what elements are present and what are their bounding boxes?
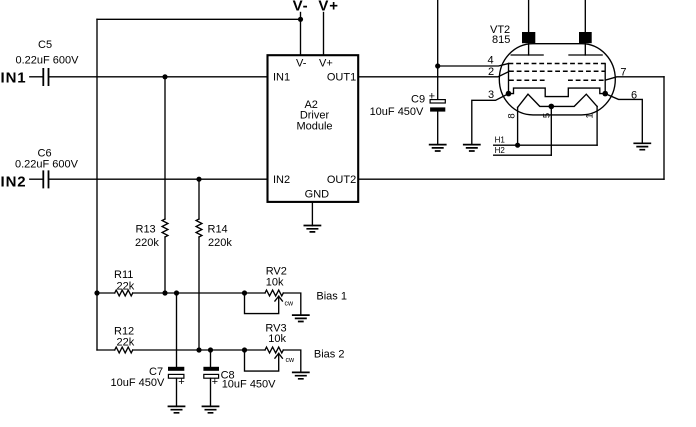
beam plate dashed row 3 right (568, 79, 605, 81)
svg-text:R13: R13 (136, 224, 156, 236)
svg-text:V+: V+ (319, 58, 333, 70)
wire left vertical bus (96, 19, 98, 350)
op-amp module A2 box (268, 55, 359, 202)
ground RV3 (292, 372, 310, 378)
ground C9 (429, 145, 447, 151)
node left bus R11 (94, 290, 99, 295)
wire V- to module (300, 13, 302, 56)
wire R14 upper (198, 179, 200, 219)
wire right vertical bus (663, 77, 665, 179)
node R14 bottom (196, 347, 201, 352)
svg-text:+: + (178, 376, 184, 388)
svg-text:C5: C5 (38, 39, 52, 51)
wire R12 row left (97, 349, 115, 351)
wire V+ to module (323, 13, 325, 56)
svg-text:C7: C7 (149, 366, 163, 378)
wire RV3 right lead (283, 350, 301, 372)
wire screen tie left (508, 64, 510, 94)
svg-text:22k: 22k (117, 280, 135, 292)
svg-text:IN1: IN1 (1, 69, 27, 86)
svg-text:0.22uF 600V: 0.22uF 600V (15, 159, 79, 171)
capacitor C8 (203, 367, 219, 371)
capacitor C5 (43, 68, 48, 86)
wire RV3 wiper loop (245, 350, 279, 371)
potentiometer RV2 (265, 290, 283, 296)
right anode plate (569, 54, 602, 56)
svg-text:H1: H1 (495, 136, 506, 145)
svg-text:220k: 220k (135, 237, 159, 249)
RV2 wiper arrow (275, 296, 283, 301)
wire H1 (494, 144, 597, 146)
node RV2 loop (242, 290, 247, 295)
wire R13 lower (164, 237, 166, 293)
ground pin 3 (463, 145, 481, 151)
capacitor C9 (430, 100, 445, 103)
RV3 wiper arrow (275, 353, 283, 358)
wire R12 row to RV3 (133, 349, 265, 351)
svg-text:10uF 450V: 10uF 450V (111, 377, 165, 389)
beam plate dashed row 3 left (509, 79, 546, 81)
wire C7 lower (176, 378, 178, 406)
wire screen tie right (604, 64, 606, 94)
resistor R12 (115, 347, 133, 353)
node R13 top on IN1 line (162, 74, 167, 79)
filament cathodes (518, 94, 598, 107)
svg-text:10uF 450V: 10uF 450V (222, 379, 276, 391)
capacitor C6 (43, 170, 48, 188)
node RV3 loop (242, 347, 247, 352)
wire R11 row left (97, 292, 115, 294)
tube envelope (499, 44, 615, 115)
svg-text:3: 3 (488, 89, 494, 101)
node C7 top (174, 290, 179, 295)
wire R14 lower (198, 237, 200, 350)
svg-text:Bias 1: Bias 1 (316, 291, 347, 303)
wire right anode cap top (584, 0, 586, 32)
svg-text:V+: V+ (318, 0, 339, 15)
svg-text:220k: 220k (208, 237, 232, 249)
wire C8 upper (210, 350, 212, 367)
svg-text:10uF 450V: 10uF 450V (370, 106, 424, 118)
ground module (304, 226, 322, 232)
wire IN2 stub (30, 178, 42, 180)
wire right anode lead (584, 43, 586, 55)
svg-text:8: 8 (507, 113, 518, 118)
svg-text:4: 4 (488, 55, 494, 67)
wire H2 (494, 154, 552, 156)
svg-text:10k: 10k (268, 333, 286, 345)
wire pin 4 (438, 64, 509, 67)
wire left anode cap top (528, 0, 530, 32)
svg-text:22k: 22k (117, 337, 135, 349)
svg-text:815: 815 (492, 34, 510, 46)
ground pin 6 (633, 143, 651, 149)
node pin 8 on H1 (515, 143, 520, 148)
wire C8 lower (210, 378, 212, 406)
svg-text:1: 1 (585, 113, 596, 118)
svg-text:10k: 10k (266, 277, 284, 289)
svg-text:Module: Module (296, 120, 332, 132)
left anode plate (511, 54, 543, 56)
screen grid dashed row 2 (509, 70, 605, 72)
wire pin 5 lead (550, 106, 552, 155)
left anode cap (522, 32, 535, 43)
wire OUT2 row (358, 178, 664, 180)
svg-text:IN2: IN2 (273, 174, 290, 186)
screen grid dashed row 1 (509, 63, 606, 65)
node junction V- rail (298, 17, 303, 22)
ground C8 (202, 406, 220, 412)
svg-text:OUT2: OUT2 (327, 174, 356, 186)
ground C7 (168, 406, 186, 412)
wire C9 lower (437, 112, 439, 145)
svg-text:2: 2 (488, 66, 494, 78)
wire left anode lead (528, 43, 530, 55)
svg-text:Bias 2: Bias 2 (314, 349, 345, 361)
node R13 bottom (162, 290, 167, 295)
wire V+ rail to C9 from top (437, 0, 439, 100)
svg-text:cw: cw (286, 357, 296, 364)
wire R11 row to RV2 (133, 292, 265, 294)
node filament center pin 5 (549, 104, 555, 110)
ground RV2 (292, 315, 310, 321)
svg-text:0.22uF 600V: 0.22uF 600V (16, 55, 80, 67)
node grid right pin 6 (602, 91, 608, 97)
control grid G1 (509, 88, 606, 97)
svg-text:H2: H2 (495, 146, 506, 155)
wire R13 upper (164, 77, 166, 219)
node C8 top (208, 347, 213, 352)
right anode cap (579, 32, 592, 43)
svg-text:V-: V- (296, 58, 307, 70)
wire C7 upper (176, 293, 178, 367)
svg-text:C9: C9 (411, 94, 425, 106)
node grid left pin 3 (506, 91, 512, 97)
node C9 / pin4 tee (435, 63, 440, 68)
wire RV2 wiper loop (245, 293, 279, 314)
capacitor C7 (168, 367, 184, 371)
wire C6 to module IN2 (49, 178, 267, 180)
node R14 top on IN2 line (196, 177, 201, 182)
resistor R11 (115, 290, 133, 296)
wire IN1 stub (30, 76, 42, 78)
svg-text:cw: cw (285, 301, 295, 308)
svg-text:IN1: IN1 (273, 71, 290, 83)
wire RV2 right lead (283, 293, 301, 315)
svg-text:+: + (212, 376, 218, 388)
svg-text:IN2: IN2 (1, 173, 27, 190)
svg-text:OUT1: OUT1 (327, 71, 356, 83)
potentiometer RV3 (265, 347, 283, 353)
wire pin 6 to ground (605, 94, 642, 144)
svg-text:R14: R14 (208, 224, 228, 236)
wire pin 3 to ground (472, 94, 509, 145)
wire pin 1 lead (596, 106, 598, 145)
wire module GND stub (311, 202, 313, 226)
wire OUT1 to tube pin 2 (358, 71, 509, 77)
wire top rail V- to left vertical (97, 18, 301, 20)
svg-text:R11: R11 (114, 269, 133, 281)
resistor R14 (196, 219, 202, 237)
wire pin 8 lead (517, 107, 519, 145)
wire pin 7 to right bus (605, 77, 664, 80)
resistor R13 (162, 219, 168, 237)
svg-text:GND: GND (305, 188, 330, 200)
wire C5 to module IN1 (49, 76, 267, 78)
